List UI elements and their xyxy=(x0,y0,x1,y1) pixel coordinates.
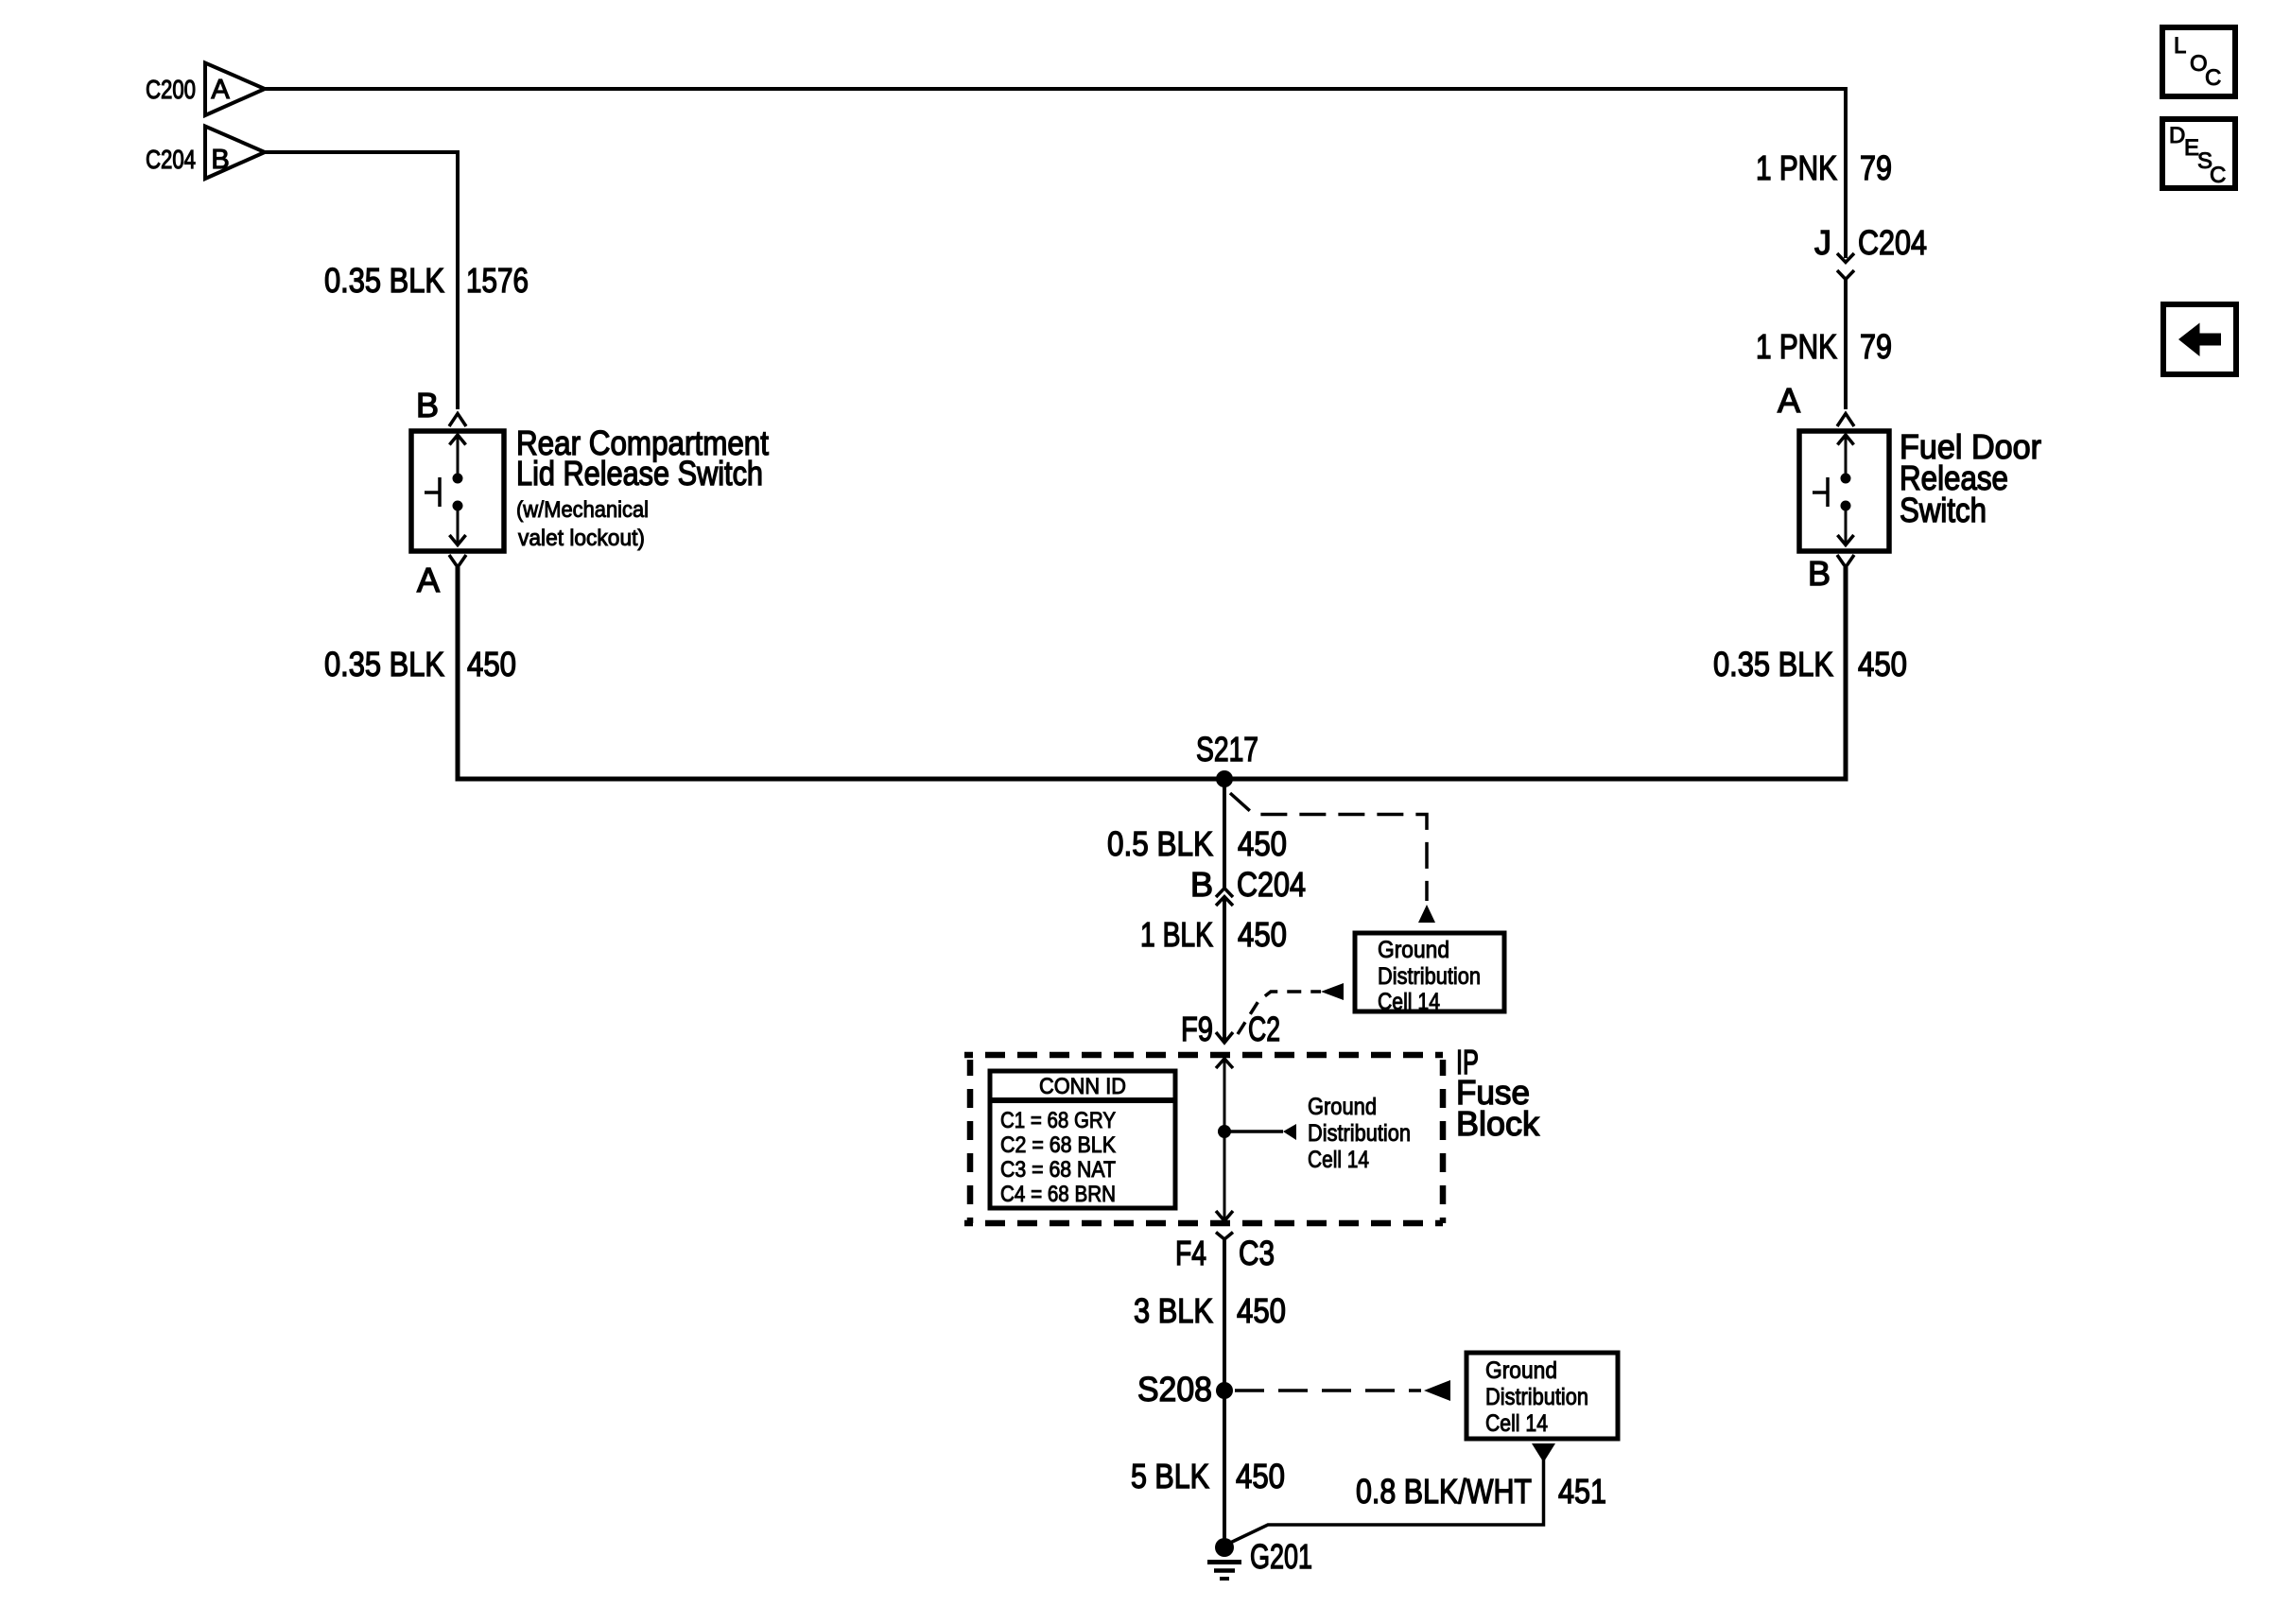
svg-text:B: B xyxy=(211,145,229,175)
internal ground junction in fuse block xyxy=(1218,1125,1231,1138)
inline connector C204 pin J (double chevron) xyxy=(1814,223,1927,280)
svg-text:C204: C204 xyxy=(146,145,196,174)
svg-text:Cell 14: Cell 14 xyxy=(1485,1410,1548,1437)
wire S217 down (0.5 BLK 450) xyxy=(1223,779,1226,888)
svg-text:1 BLK: 1 BLK xyxy=(1140,915,1213,954)
svg-text:Cell 14: Cell 14 xyxy=(1308,1147,1369,1173)
wire label 5 BLK 450 xyxy=(1131,1457,1285,1495)
solid reference leader to ground distribution text xyxy=(1224,1124,1296,1140)
svg-text:Block: Block xyxy=(1456,1104,1540,1143)
svg-text:Ground: Ground xyxy=(1378,937,1449,963)
svg-text:A: A xyxy=(211,75,230,105)
svg-text:1 PNK: 1 PNK xyxy=(1756,327,1837,366)
ground distribution cell 14 reference text (inside fuse block) xyxy=(1308,1094,1411,1173)
svg-text:450: 450 xyxy=(1858,645,1907,683)
svg-text:CONN ID: CONN ID xyxy=(1039,1074,1126,1099)
wire label 1 PNK 79 upper xyxy=(1756,148,1892,187)
wire inside fuse block (arrow in from F9) xyxy=(1216,1059,1233,1132)
terminal F9 / C2 at fuse block xyxy=(1181,1010,1280,1048)
svg-text:0.35 BLK: 0.35 BLK xyxy=(1713,645,1833,683)
svg-text:Cell 14: Cell 14 xyxy=(1378,989,1440,1015)
svg-text:0.8 BLK/WHT: 0.8 BLK/WHT xyxy=(1356,1472,1532,1511)
wire from C204 J to fuel door switch pin A xyxy=(1844,280,1848,410)
ground distribution cell 14 reference box (upper) xyxy=(1355,933,1504,1015)
svg-text:(w/Mechanical: (w/Mechanical xyxy=(516,497,649,523)
svg-text:C2 = 68 BLK: C2 = 68 BLK xyxy=(1000,1132,1116,1158)
IP fuse block dashed outline xyxy=(964,1055,1443,1223)
connector C204 triangle with pin B xyxy=(146,127,265,180)
svg-text:1 PNK: 1 PNK xyxy=(1756,148,1837,187)
svg-text:450: 450 xyxy=(1238,824,1287,863)
svg-text:C: C xyxy=(2205,65,2221,91)
dashed reference leader from S217 to ground distribution cell 14 xyxy=(1230,793,1435,923)
svg-text:F4: F4 xyxy=(1175,1234,1206,1272)
svg-text:D: D xyxy=(2169,123,2185,148)
wire from C204 B to rear compartment lid release switch (0.35 BLK 1576) xyxy=(265,152,458,409)
svg-text:B: B xyxy=(1808,554,1831,593)
wire C204 B to fuse block F9 (1 BLK 450) xyxy=(1223,897,1226,1043)
dashed reference leader from F9 to ground distribution text xyxy=(1238,983,1344,1034)
svg-text:C3 = 68 NAT: C3 = 68 NAT xyxy=(1000,1157,1116,1183)
ground distribution cell 14 reference box (lower) xyxy=(1466,1353,1618,1439)
splice S217 xyxy=(1196,730,1258,787)
svg-text:79: 79 xyxy=(1860,327,1892,366)
svg-text:450: 450 xyxy=(1236,1457,1285,1495)
svg-text:S208: S208 xyxy=(1137,1370,1212,1408)
wire 0.8 BLK/WHT 451 from ground distribution box to G201 xyxy=(1226,1443,1606,1545)
svg-text:A: A xyxy=(1778,381,1800,420)
svg-text:F9: F9 xyxy=(1181,1010,1213,1048)
fuel door switch terminal B xyxy=(1808,554,1854,593)
svg-text:Distribution: Distribution xyxy=(1485,1384,1588,1410)
ground G201 xyxy=(1207,1537,1312,1579)
connector C200 triangle with pin A xyxy=(146,63,265,116)
svg-text:0.35 BLK: 0.35 BLK xyxy=(324,261,444,300)
inline connector C204 pin B (double chevron) xyxy=(1190,865,1306,906)
svg-text:J: J xyxy=(1814,223,1831,262)
svg-text:450: 450 xyxy=(1237,1291,1286,1330)
svg-text:A: A xyxy=(417,561,440,599)
svg-text:1576: 1576 xyxy=(466,261,529,300)
LOC legend box xyxy=(2162,27,2235,96)
svg-text:451: 451 xyxy=(1558,1472,1606,1511)
rear compartment switch terminal B xyxy=(416,386,466,426)
IP fuse block label xyxy=(1456,1043,1540,1143)
wire from C200 to fuel door release switch (1 PNK 79) xyxy=(265,89,1846,258)
svg-text:Distribution: Distribution xyxy=(1308,1120,1411,1147)
fuel door release switch xyxy=(1799,427,2041,551)
svg-text:3 BLK: 3 BLK xyxy=(1134,1291,1213,1330)
wire from rear switch A to S217 (0.35 BLK 450) xyxy=(458,567,1224,779)
dashed reference leader from S208 to ground distribution cell 14 xyxy=(1235,1380,1450,1401)
svg-text:L: L xyxy=(2174,33,2186,59)
wire from fuel door switch B to S217 (0.35 BLK 450) xyxy=(1224,567,1846,779)
svg-text:C: C xyxy=(2210,163,2226,188)
svg-text:C204: C204 xyxy=(1237,865,1306,904)
rear compartment switch terminal A xyxy=(417,555,466,599)
svg-text:S217: S217 xyxy=(1196,730,1258,769)
svg-text:C2: C2 xyxy=(1248,1010,1280,1048)
svg-text:C4 = 68 BRN: C4 = 68 BRN xyxy=(1000,1182,1116,1207)
svg-text:0.5 BLK: 0.5 BLK xyxy=(1107,824,1213,863)
svg-text:450: 450 xyxy=(1238,915,1287,954)
svg-text:0.35 BLK: 0.35 BLK xyxy=(324,645,444,683)
svg-text:C200: C200 xyxy=(146,75,196,104)
svg-text:Distribution: Distribution xyxy=(1378,963,1481,990)
fuel door switch terminal A xyxy=(1778,381,1854,426)
svg-text:B: B xyxy=(1190,865,1213,904)
wire F4 to S208 to G201 (3 BLK / 5 BLK 450) xyxy=(1223,1239,1226,1543)
svg-text:C204: C204 xyxy=(1858,223,1927,262)
svg-text:C3: C3 xyxy=(1239,1234,1275,1272)
svg-text:Ground: Ground xyxy=(1485,1357,1557,1384)
svg-text:5 BLK: 5 BLK xyxy=(1131,1457,1209,1495)
svg-text:valet lockout): valet lockout) xyxy=(518,526,645,551)
wire label 1 PNK 79 lower xyxy=(1756,327,1892,366)
DESC legend box xyxy=(2162,119,2235,188)
svg-text:G201: G201 xyxy=(1250,1537,1312,1576)
svg-text:Lid Release Switch: Lid Release Switch xyxy=(516,454,763,492)
splice S208 xyxy=(1137,1370,1233,1408)
svg-text:Switch: Switch xyxy=(1900,491,1987,529)
svg-text:Ground: Ground xyxy=(1308,1094,1377,1120)
svg-text:79: 79 xyxy=(1860,148,1892,187)
terminal F4 / C3 below fuse block xyxy=(1175,1233,1275,1273)
wire inside fuse block (arrow out to F4) xyxy=(1216,1132,1233,1221)
svg-text:B: B xyxy=(416,386,439,424)
back arrow legend box xyxy=(2163,304,2236,374)
svg-text:C1 = 68 GRY: C1 = 68 GRY xyxy=(1000,1108,1116,1133)
CONN ID table xyxy=(990,1071,1175,1208)
svg-text:450: 450 xyxy=(467,645,516,683)
rear compartment lid release switch xyxy=(411,423,769,551)
